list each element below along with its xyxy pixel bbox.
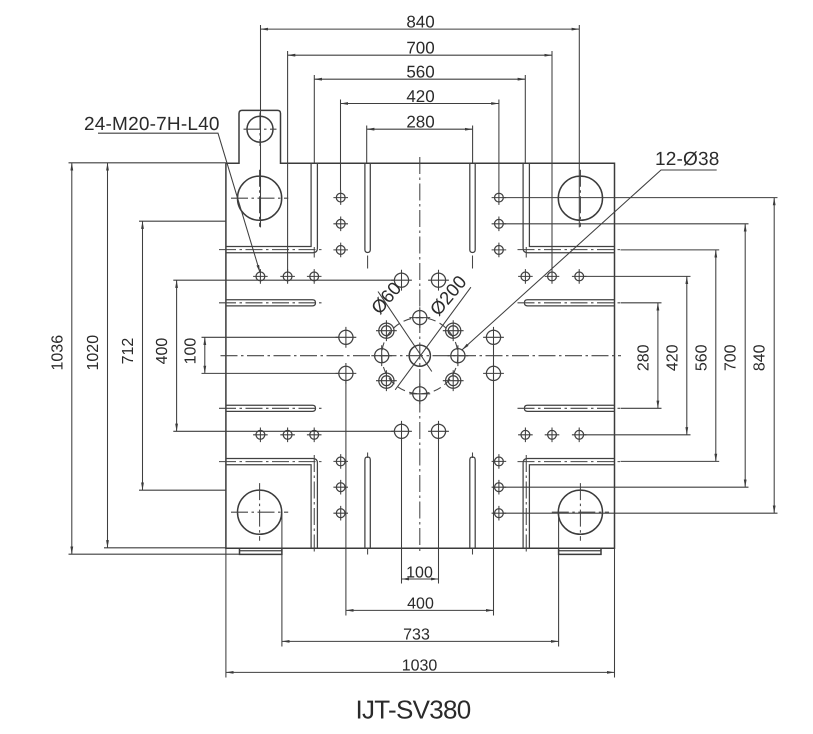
svg-text:420: 420 xyxy=(406,87,434,106)
T-slot top left xyxy=(365,163,370,268)
dim 1030 bottom xyxy=(226,658,615,675)
platen outline with top tab xyxy=(226,110,615,548)
dim 400 left xyxy=(154,280,177,431)
dim 712 left xyxy=(120,221,143,490)
dim 700 right xyxy=(723,224,746,487)
center hole xyxy=(409,345,430,366)
M20 row top xyxy=(253,269,586,284)
dim 560 top xyxy=(314,63,525,82)
corner channel bottom-left xyxy=(219,455,322,554)
T-slot right upper xyxy=(518,300,621,306)
svg-text:24-M20-7H-L40: 24-M20-7H-L40 xyxy=(84,114,220,135)
mold hole left pair xyxy=(336,327,357,384)
tie bar hole bottom-left xyxy=(231,483,288,541)
threaded hole SW xyxy=(376,370,397,391)
dim 420 right xyxy=(664,276,687,434)
dim 280 top xyxy=(367,113,473,132)
dim 1020 left xyxy=(85,163,108,548)
left extension lines xyxy=(69,163,395,554)
svg-text:280: 280 xyxy=(635,344,652,371)
svg-text:400: 400 xyxy=(154,338,171,365)
svg-text:12-Ø38: 12-Ø38 xyxy=(655,149,720,170)
bolt hole N xyxy=(409,307,430,328)
M20 column right top xyxy=(492,190,507,257)
dim 560 right xyxy=(693,250,716,462)
dim 280 right xyxy=(635,303,658,409)
svg-text:840: 840 xyxy=(406,12,434,31)
mold hole bottom pair xyxy=(391,421,449,442)
top extension lines xyxy=(261,25,580,272)
M20 row bottom xyxy=(253,428,586,443)
dim 400 bottom xyxy=(346,596,494,613)
corner channel bottom-right xyxy=(518,455,621,554)
mold hole top pair xyxy=(391,270,449,291)
bolt hole W xyxy=(371,345,392,366)
threaded hole SE xyxy=(443,370,464,391)
svg-text:1036: 1036 xyxy=(49,335,66,371)
main centerline horizontal xyxy=(221,355,622,357)
label 24-M20 leader xyxy=(84,114,260,273)
bottom extension lines xyxy=(226,345,615,678)
bottom left foot xyxy=(240,548,282,554)
dia 60 label line xyxy=(378,292,432,372)
threaded hole NW xyxy=(376,320,397,341)
bottom right foot xyxy=(559,548,601,554)
svg-text:560: 560 xyxy=(693,344,710,371)
T-slot left upper xyxy=(219,300,322,306)
T-slot right lower xyxy=(518,405,621,411)
bolt circle dashed xyxy=(382,318,458,394)
svg-text:560: 560 xyxy=(406,63,434,82)
svg-text:100: 100 xyxy=(406,564,433,581)
mold hole right pair xyxy=(483,327,504,384)
dim 733 bottom xyxy=(282,627,559,644)
svg-text:840: 840 xyxy=(752,344,769,371)
svg-text:1020: 1020 xyxy=(85,335,102,371)
M20 column right bottom xyxy=(492,454,507,520)
bolt hole E xyxy=(448,345,469,366)
svg-text:700: 700 xyxy=(406,39,434,58)
threaded hole NE xyxy=(443,320,464,341)
T-slot left lower xyxy=(219,405,322,411)
T-slot bottom right xyxy=(470,453,475,555)
svg-text:420: 420 xyxy=(664,344,681,371)
dia 200 label line xyxy=(395,287,471,390)
svg-text:IJT-SV380: IJT-SV380 xyxy=(355,695,470,725)
dim 1036 left xyxy=(49,163,72,554)
main centerline vertical xyxy=(419,157,421,554)
tie bar hole bottom-right xyxy=(552,483,609,541)
svg-text:280: 280 xyxy=(406,113,434,132)
M20 column left top xyxy=(333,190,348,257)
svg-text:1030: 1030 xyxy=(402,658,438,675)
svg-text:712: 712 xyxy=(120,338,137,365)
corner channel top-left xyxy=(219,163,322,257)
M20 column left bottom xyxy=(333,454,348,520)
tie bar hole top-left xyxy=(231,170,288,227)
tie bar hole top-right xyxy=(558,170,602,227)
svg-text:700: 700 xyxy=(723,344,740,371)
dim 840 top xyxy=(261,12,580,31)
svg-text:100: 100 xyxy=(182,338,199,365)
svg-text:733: 733 xyxy=(403,627,430,644)
label 12-dia38 leader xyxy=(462,149,720,350)
dim 840 right xyxy=(752,198,775,514)
dim 420 top xyxy=(341,87,499,106)
dim 100 left xyxy=(182,337,205,373)
bolt hole S xyxy=(409,383,430,404)
T-slot top right xyxy=(470,163,475,268)
tab locating hole xyxy=(244,113,277,147)
T-slot bottom left xyxy=(365,453,370,555)
dim 700 top xyxy=(288,39,552,58)
corner channel top-right xyxy=(518,163,621,257)
svg-text:400: 400 xyxy=(407,596,434,613)
dim 100 bottom xyxy=(402,564,439,581)
right extension lines xyxy=(504,198,778,514)
